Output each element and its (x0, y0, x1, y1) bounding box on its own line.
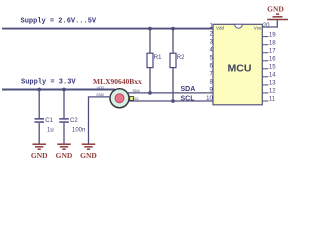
wire: sensor GND to ground (89, 97, 111, 144)
svg-text:Supply = 2.6V...5V: Supply = 2.6V...5V (21, 17, 97, 25)
svg-text:SCL: SCL (133, 97, 140, 101)
ground (top right, for MCU Vss) (267, 14, 288, 19)
svg-text:SCL: SCL (181, 95, 196, 102)
MCU right pin numbers 11-20 (263, 23, 276, 103)
svg-text:GND: GND (56, 151, 73, 160)
svg-text:13: 13 (269, 81, 276, 87)
junction: SCL / R2 bottom (171, 99, 175, 103)
junction: rail / R2 top (171, 27, 175, 31)
svg-text:15: 15 (269, 65, 276, 71)
svg-text:16: 16 (269, 57, 276, 63)
svg-text:GND: GND (267, 5, 284, 14)
svg-text:GND: GND (80, 151, 97, 160)
MCU U1 body (213, 24, 262, 105)
wire: C1 top to 3.3V rail (38, 90, 40, 119)
svg-text:SDA: SDA (181, 86, 196, 93)
svg-text:Vdd: Vdd (216, 25, 225, 30)
sensor pin-1 tab (130, 97, 134, 101)
svg-text:C2: C2 (70, 118, 78, 124)
svg-text:20: 20 (263, 23, 270, 29)
svg-text:R1: R1 (154, 55, 162, 61)
sensor U2 MLX90640Bxx (110, 89, 129, 108)
wire: R1 top to +V rail (149, 29, 151, 54)
svg-text:19: 19 (269, 32, 276, 38)
capacitor C1 (35, 118, 54, 133)
svg-text:18: 18 (269, 40, 276, 46)
MCU right pin stubs (pins 11-19) (262, 37, 268, 101)
svg-text:MLX90640Bxx: MLX90640Bxx (93, 77, 142, 86)
MCU left pin numbers 1-10 (206, 23, 213, 101)
svg-text:14: 14 (269, 73, 276, 79)
junction: SDA / R1 bottom (148, 91, 152, 95)
svg-text:100n: 100n (72, 127, 85, 133)
wire: R2 bottom to SCL (172, 68, 174, 101)
wire: C1 bottom to ground (38, 123, 40, 144)
svg-text:SDA: SDA (133, 89, 141, 93)
wire: MCU pin 20 (Vss) to GND (262, 20, 277, 28)
capacitor C2 (59, 118, 85, 133)
junction: 3.3V rail / C1 (37, 88, 41, 92)
wire: R1 bottom to SDA (149, 68, 151, 93)
svg-text:Supply = 3.3V: Supply = 3.3V (21, 79, 76, 87)
wire: C2 top to 3.3V rail (63, 90, 65, 119)
svg-text:MCU: MCU (228, 62, 252, 74)
resistor R1 (147, 53, 162, 67)
wire: SDA net (sensor SDA to MCU pin 9) (128, 92, 213, 94)
svg-text:17: 17 (269, 48, 276, 54)
svg-text:1u: 1u (47, 127, 54, 133)
junction: 3.3V rail / C2 (62, 88, 66, 92)
svg-text:10: 10 (206, 96, 213, 102)
wire: R2 top to +V rail (172, 29, 174, 54)
resistor R2 (170, 53, 185, 67)
svg-text:GND: GND (31, 151, 48, 160)
ground (below C1) (32, 144, 46, 149)
ground (below C2) (57, 144, 71, 149)
wire: 3.3V supply rail to sensor VDD (2, 89, 115, 91)
svg-text:12: 12 (269, 89, 276, 95)
wire: SCL net (sensor SCL to MCU pin 10) (129, 100, 213, 102)
svg-text:11: 11 (269, 97, 276, 103)
wire: +V supply rail (2.6V..5V) to MCU pin 1 (2, 28, 213, 30)
svg-text:C1: C1 (45, 118, 53, 124)
ground (sensor GND) (82, 144, 96, 149)
junction: rail / R1 top (148, 27, 152, 31)
svg-text:R2: R2 (177, 55, 185, 61)
svg-text:Vss: Vss (254, 25, 262, 30)
wire: C2 bottom to ground (63, 123, 65, 144)
svg-text:VDD: VDD (97, 86, 105, 90)
